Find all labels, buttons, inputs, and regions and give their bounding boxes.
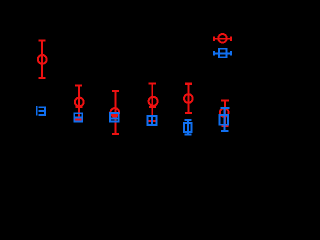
blue point 1 right bar [44,106,46,116]
blue point 6 error bar line [223,108,225,131]
red point 5 error bar line [187,84,189,114]
red point 6 circle marker [220,108,229,117]
blue point 1 bottom rung [38,114,46,116]
blue point 2 square marker [74,113,82,121]
red point 6 top cap [221,99,229,101]
legend blue square marker [219,49,226,58]
legend red right cap [230,37,232,42]
blue point 2 middle line [74,116,84,118]
red point 2 inner cap [75,106,82,108]
red point 3 inner cap [112,114,119,116]
red point 5 circle marker [184,94,193,103]
red point 2 bottom cap [75,119,83,121]
blue point 3 middle line [109,118,119,120]
red point 4 error bar line [151,83,153,121]
blue point 1 middle rung [38,110,46,112]
legend red left cap [213,37,215,42]
blue point 1 left cap [36,106,38,115]
red point 4 top cap [148,82,155,84]
legend red entry line [214,38,232,40]
red point 1 bottom cap [38,77,45,79]
red point 2 top cap [75,85,82,87]
legend blue left cap [213,51,215,56]
blue point 4 square marker [147,116,156,125]
blue point 5 square marker [184,123,191,132]
red point 3 bottom cap [112,133,119,135]
red point 2 error bar line [78,85,80,119]
blue point 5 error bar line [187,120,189,135]
red point 6 error bar line [224,100,226,126]
legend blue right cap [230,51,232,56]
red point 4 circle marker [149,97,158,106]
blue point 6 square marker [219,115,228,125]
red point 1 circle marker [38,55,47,64]
legend blue entry line [214,52,232,54]
red point 1 error bar line [41,41,43,78]
blue point 1 top rung [38,106,46,108]
red point 4 bottom cap [148,120,157,122]
blue point 6 bottom cap [221,130,229,132]
red point 5 bottom cap [185,112,192,114]
blue point 4 vertical line [151,115,153,125]
red point 3 circle marker [111,108,120,117]
blue point 5 top cap [185,119,192,121]
red point 5 top cap [185,83,192,85]
red point 2 circle marker [75,98,84,107]
red point 4 inner cap [149,106,156,108]
blue point 3 square marker [110,113,119,122]
red point 1 top cap [38,39,45,41]
blue point 6 top cap [221,107,230,109]
red point 3 error bar line [114,91,116,134]
red point 6 bottom cap [221,125,228,127]
legend red circle marker [218,34,227,43]
red point 3 top cap [112,90,119,92]
blue point 5 bottom cap [185,134,192,136]
blue point 6 vertical line [223,115,225,125]
